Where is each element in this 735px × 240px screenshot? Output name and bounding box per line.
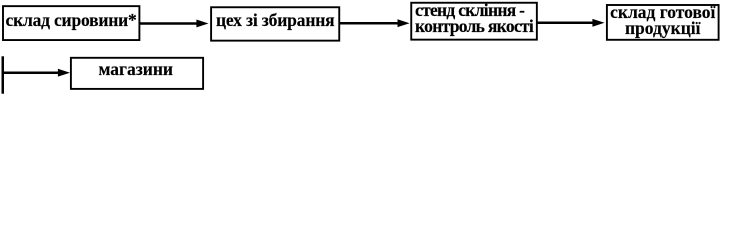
arrow 1: box1 -> box2 — [140, 20, 209, 28]
label: стенд скління - контроль якості — [415, 2, 533, 34]
label: магазини — [70, 61, 203, 77]
box 1 "склад сировини*" — [3, 6, 139, 40]
box 3 "стенд скління - контроль якості" — [411, 3, 537, 40]
arrow 2: box2 -> box3 — [340, 19, 410, 27]
arrow 4: wire -> box5 "магазини" — [2, 69, 71, 77]
label: склад сировини* — [2, 12, 140, 28]
box 2 "цех зі збирання" — [211, 7, 339, 40]
label: склад готової продукції — [606, 4, 720, 36]
vertical wire at left — [2, 56, 5, 93]
box 5 "магазини" — [71, 58, 203, 89]
arrow 3: box3 -> box4 — [537, 19, 604, 27]
box 4 "склад готової продукції" — [607, 5, 719, 40]
label: цех зі збирання — [210, 12, 340, 28]
